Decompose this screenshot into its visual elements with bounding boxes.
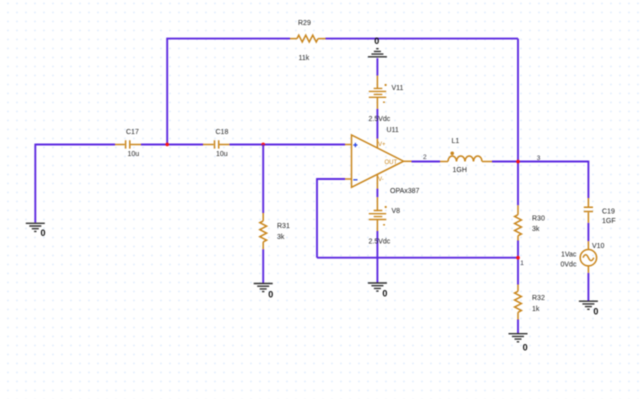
junction node 1 (516, 256, 520, 260)
svg-text:10u: 10u (216, 151, 228, 158)
svg-text:11k: 11k (299, 55, 310, 62)
ground under V8 (0) (368, 283, 388, 299)
wire right vertical from top to node 3 (517, 39, 519, 162)
svg-text:C19: C19 (602, 209, 615, 216)
svg-text:OPAx387: OPAx387 (390, 188, 420, 195)
wire op-amp output to L1 (412, 161, 441, 163)
resistor R31 (260, 213, 290, 249)
svg-text:1GH: 1GH (453, 167, 467, 174)
junction at C17/R29 tap (165, 143, 169, 147)
wire C18 to op-amp plus input (230, 144, 346, 146)
wire node 3 to C19 branch (518, 161, 588, 163)
wire L1 to node 3 (492, 161, 518, 163)
wire V11 to op-amp V+ (376, 109, 378, 139)
ground under V10 (0) (579, 301, 599, 316)
wire R31 to ground (262, 249, 264, 283)
svg-text:OUT: OUT (385, 160, 398, 166)
wire input horizontal left (35, 144, 115, 146)
ground top inverted (0) (368, 36, 387, 57)
dc source V8 (369, 197, 401, 245)
capacitor C17 (115, 129, 141, 158)
ground left (0) (26, 223, 46, 238)
svg-text:0Vdc: 0Vdc (561, 262, 577, 269)
svg-text:V11: V11 (392, 85, 404, 92)
junction at C18/R31 tap (261, 143, 265, 147)
svg-text:R30: R30 (532, 216, 545, 223)
wire V8 to ground (376, 231, 378, 283)
wire feedback vertical (316, 178, 318, 258)
dc source V11 (369, 76, 404, 123)
wire top ground to V11 (376, 58, 378, 75)
wire R32 to ground (517, 320, 519, 334)
svg-text:U11: U11 (387, 127, 399, 134)
voltage source V10 (561, 241, 605, 273)
svg-text:V+: V+ (378, 142, 386, 148)
svg-text:V8: V8 (392, 208, 401, 215)
capacitor C18 (203, 129, 230, 158)
svg-text:V10: V10 (592, 243, 605, 250)
wire R31 vertical (262, 145, 264, 214)
svg-text:0: 0 (268, 290, 273, 300)
svg-text:3k: 3k (277, 234, 285, 241)
svg-text:V-: V- (378, 177, 384, 183)
svg-text:R31: R31 (277, 223, 290, 230)
wire C19 to V10 (587, 223, 589, 241)
resistor R32 (515, 285, 545, 320)
svg-text:C18: C18 (216, 129, 229, 136)
inductor L1 (440, 138, 492, 174)
svg-text:C17: C17 (126, 129, 139, 136)
svg-text:1: 1 (520, 260, 524, 267)
svg-text:1GF: 1GF (602, 218, 616, 225)
svg-text:2.5Vdc: 2.5Vdc (369, 239, 391, 246)
svg-text:L1: L1 (452, 138, 460, 145)
svg-text:R29: R29 (298, 20, 311, 27)
wire feedback horizontal to node 1 (317, 257, 518, 259)
svg-text:R32: R32 (532, 295, 545, 302)
svg-text:2.5Vdc: 2.5Vdc (369, 116, 391, 123)
op-amp U11 (345, 127, 420, 195)
wire V10 to ground (587, 273, 589, 301)
svg-text:0: 0 (523, 343, 528, 353)
junction node 3 (516, 160, 520, 164)
wire C19 top vertical (587, 161, 589, 198)
wire vertical tap to R29 (166, 39, 168, 145)
capacitor C19 (584, 198, 616, 225)
wire top horizontal left of R29 (166, 38, 290, 40)
wire top horizontal right of R29 (326, 38, 519, 40)
svg-text:10u: 10u (128, 151, 140, 158)
wire op-amp V- to V8 (376, 189, 378, 198)
svg-text:0: 0 (41, 228, 46, 238)
ground under R31 (0) (254, 284, 274, 300)
wire node 3 to R30 (517, 162, 519, 206)
svg-text:1k: 1k (532, 306, 540, 313)
resistor R30 (515, 205, 545, 240)
svg-text:0: 0 (593, 307, 598, 317)
wire input vertical to ground (34, 144, 36, 223)
ground under R32 (0) (509, 334, 528, 353)
wire node 1 to R32 (517, 258, 519, 285)
svg-text:0: 0 (374, 36, 379, 46)
wire R30 to node 1 (517, 241, 519, 258)
wire C17 to C18 (141, 144, 203, 146)
svg-text:1Vac: 1Vac (561, 252, 577, 259)
svg-text:3: 3 (537, 155, 541, 162)
svg-text:3k: 3k (532, 226, 540, 233)
svg-text:0: 0 (382, 289, 387, 299)
resistor R29 (290, 20, 326, 62)
wire op-amp minus input stub (317, 178, 345, 180)
svg-text:2: 2 (423, 154, 427, 161)
